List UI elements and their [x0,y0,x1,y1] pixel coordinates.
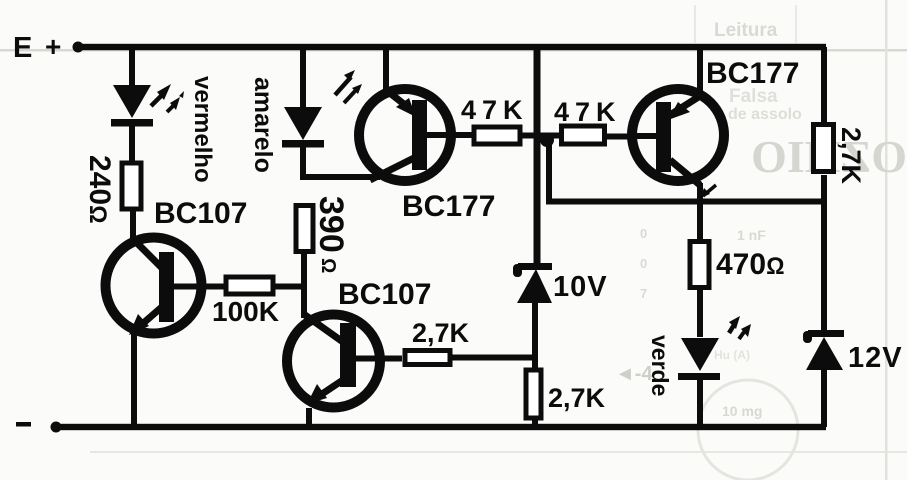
svg-text:verde: verde [647,335,673,396]
svg-text:BC107: BC107 [338,278,431,311]
svg-text:10V: 10V [553,271,608,303]
svg-text:Ω: Ω [317,258,339,273]
transistor Q3 BC107 bottom middle [287,278,431,408]
wire node D to 470 ohm [697,201,703,239]
wire Q3 emitter to bottom rail [306,408,312,427]
node E+ input terminal [13,31,84,64]
resistor 2.7K horizontal [405,318,470,365]
resistor 2.7K right vertical [814,125,867,185]
wire node B to Q2 collector [300,174,380,180]
wire top supply rail [76,44,826,50]
svg-text:BC177: BC177 [402,190,495,223]
resistor 100K [212,277,279,327]
wire Q1 emitter to bottom rail [131,332,137,427]
svg-text:2,7K: 2,7K [412,318,470,348]
svg-text:0: 0 [640,226,647,241]
resistor 470 ohm [690,242,785,288]
wire bottom rail [54,424,826,430]
svg-text:0: 0 [640,256,647,271]
svg-text:BC177: BC177 [706,57,799,90]
resistor 240 ohm [83,155,141,224]
svg-text:240Ω: 240Ω [83,155,116,224]
resistor 47K first [461,95,529,144]
wire right rail top [821,47,827,123]
transistor Q4 BC177 top right [631,57,799,198]
wire LED to R 240 [129,125,135,163]
wire rail to Q2 emitter [383,47,389,92]
svg-text:amarelo: amarelo [249,77,277,173]
wire 100K to node A [273,284,305,290]
wire node C feedback down [546,140,552,202]
svg-text:470Ω: 470Ω [716,248,785,281]
LED D2 amarelo [249,70,362,173]
resistor 2.7K bottom vertical [526,370,606,418]
svg-text:47K: 47K [461,95,529,125]
wire 2.7K to zener column [452,355,536,361]
resistor 47K second [554,97,622,144]
wire right rail middle [821,175,827,332]
wire zener 10V to R 2.7K vertical [532,302,538,368]
wire zener 12V to bottom rail [821,364,827,427]
svg-text:Leitura: Leitura [714,20,778,41]
LED D1 vermelho [111,76,216,183]
wire rail to LED amarelo [300,47,306,109]
svg-text:390: 390 [312,196,350,253]
LED D3 verde [647,316,751,396]
wire 47K to node C [522,133,562,139]
resistor 390 ohm [296,196,350,273]
wire rail to LED vermelho [129,47,135,87]
wire R240 to Q1 collector [130,211,136,241]
wire LED amarelo to node B [300,147,306,180]
wire rail to node C and zener column [534,47,541,263]
svg-text:BC107: BC107 [154,197,247,230]
svg-text:de assolo: de assolo [728,106,802,123]
zener diode 12V [803,330,903,374]
wire Q4 collector to node D [697,183,703,203]
svg-text:47K: 47K [554,97,622,127]
wire LED verde to bottom rail [697,379,703,427]
svg-text:12V: 12V [848,342,903,374]
wire 47K to Q4 base [607,134,633,140]
wire rail to Q4 emitter [697,47,703,99]
wire 470 to LED verde [697,290,703,337]
svg-text:7: 7 [640,286,647,301]
svg-text:Hu (A): Hu (A) [714,348,750,362]
svg-text:10 mg: 10 mg [722,403,762,419]
node minus output terminal [16,422,62,433]
svg-text:E: E [13,32,32,64]
wire R390 to node A and Q3 collector [301,254,307,318]
svg-text:+: + [45,31,61,62]
svg-text:100K: 100K [212,296,279,327]
svg-text:1 nF: 1 nF [737,227,766,243]
svg-text:2,7K: 2,7K [836,127,866,185]
svg-text:vermelho: vermelho [189,76,216,183]
zener diode 10V [513,263,608,303]
transistor Q1 BC107 [106,197,248,335]
wire 2.7K to bottom rail [532,418,538,427]
node C junction dot [540,133,554,147]
wire feedback horizontal to right rail [546,199,826,205]
svg-text:2,7K: 2,7K [548,383,606,413]
transistor Q2 BC177 top middle [359,89,495,223]
